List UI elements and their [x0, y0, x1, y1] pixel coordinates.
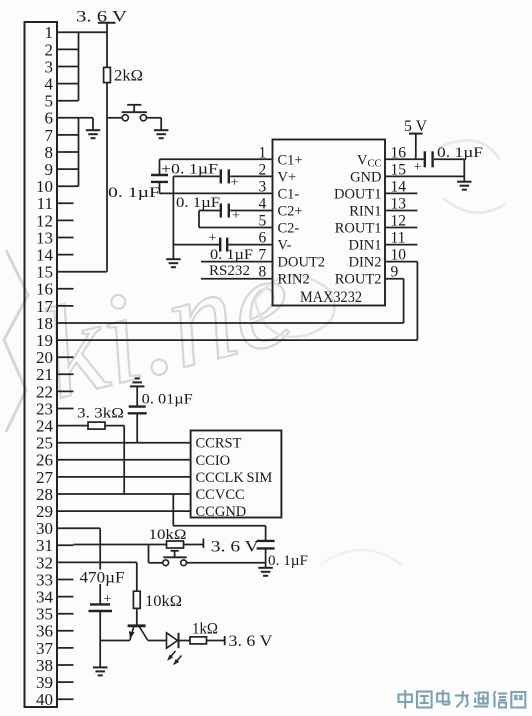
label 470µF — [79, 570, 125, 585]
wire U1 pin16 Vcc — [385, 158, 424, 160]
wire U1 pin15 GND — [385, 175, 464, 177]
label +0.1µF (C1) — [161, 161, 218, 177]
power terminal 3.6V (pin 31) — [202, 539, 204, 549]
resistor 3.3kΩ — [74, 422, 125, 429]
svg-text:0. 1µF: 0. 1µF — [210, 247, 253, 263]
wire U1 pin5 C2- — [199, 227, 273, 229]
label + (470µF polarity) — [104, 592, 112, 607]
ground at U1 pin15 — [457, 176, 472, 189]
wire bus pins 6-10 — [74, 118, 94, 186]
IC U2 SIM card interface — [191, 431, 282, 518]
power terminal 3.6V (top) — [98, 23, 116, 33]
pushbutton S1 (start) — [107, 105, 147, 121]
label 0.01µF — [142, 391, 193, 407]
LED arrows — [167, 651, 181, 665]
U1 pin numbers right 16-9 — [391, 144, 407, 280]
svg-text:DIN2: DIN2 — [348, 255, 381, 271]
capacitor 0.01µF (CCRST) — [128, 407, 147, 443]
svg-text:0. 1µF: 0. 1µF — [437, 145, 483, 161]
svg-text:V+: V+ — [278, 169, 297, 185]
ground at 470µF — [93, 667, 108, 675]
svg-text:DIN1: DIN1 — [348, 238, 381, 254]
svg-text:GND: GND — [350, 169, 381, 185]
capacitor 0.1µF C2 (C2+ to C2-) — [199, 204, 229, 228]
svg-text:MAX3232: MAX3232 — [300, 289, 362, 306]
label 10kΩ (pull-up) — [149, 527, 187, 543]
power terminal 3.6V (LED) — [224, 636, 226, 645]
capacitor 0.1µF C3 (V+ to GND) — [173, 169, 228, 183]
U1 pin numbers left 1-8 — [258, 144, 266, 280]
label 10kΩ (base) — [145, 593, 182, 610]
wire bus pins 1-5 — [74, 32, 108, 100]
svg-text:C1-: C1- — [278, 186, 300, 202]
wire U1 pin3 C1- — [160, 192, 273, 194]
label + (C2 polarity) — [232, 209, 240, 224]
wire emitter to ground node — [100, 640, 130, 642]
wire S2 to ground node — [187, 562, 266, 564]
wire U1 pin13 RIN1 stub — [385, 210, 417, 212]
wire U1 pin6 V- — [228, 244, 272, 246]
wire U1 pin14 DOUT1 stub — [385, 192, 417, 194]
svg-text:3. 6 V: 3. 6 V — [76, 8, 128, 25]
svg-text:40: 40 — [36, 690, 53, 709]
svg-text:RIN2: RIN2 — [278, 272, 310, 288]
site footer text — [399, 690, 526, 709]
svg-text:C2-: C2- — [278, 221, 300, 237]
label 3.3kΩ — [77, 405, 124, 421]
svg-text:C2+: C2+ — [278, 204, 303, 220]
wire connector pin 28 to SIM — [74, 493, 191, 495]
label 0.1µF (C5) — [437, 145, 483, 161]
label 2kΩ — [114, 67, 143, 84]
label RS232 — [209, 263, 250, 279]
label 3.6 V (LED) — [229, 633, 273, 650]
capacitor 0.1µF C1 (C1+ to C1-) — [151, 159, 168, 193]
label 5 V — [404, 118, 428, 135]
label 3.6 V (pin 31) — [211, 538, 260, 555]
svg-text:CCIO: CCIO — [196, 453, 231, 469]
svg-text:3. 3kΩ: 3. 3kΩ — [77, 405, 124, 421]
wire CCVCC branch down — [173, 494, 265, 541]
label 0.1µF (SIM cap) — [268, 553, 308, 569]
svg-text:+: + — [231, 176, 239, 191]
svg-text:RS232: RS232 — [209, 263, 250, 279]
svg-text:+: + — [414, 160, 422, 175]
svg-text:0. 1µF: 0. 1µF — [176, 195, 220, 211]
svg-text:ROUT1: ROUT1 — [335, 221, 382, 237]
wire U1 pin11 DIN1 stub — [385, 244, 417, 246]
label 3.6 V (top) — [76, 8, 128, 25]
svg-text:470µF: 470µF — [80, 570, 125, 587]
wire pin30 down — [74, 528, 101, 604]
transistor Q1 — [128, 626, 148, 641]
svg-text:DOUT1: DOUT1 — [334, 186, 382, 202]
wire pin32 to base resistor — [74, 562, 137, 591]
pushbutton S2 — [149, 545, 187, 566]
wire connector pin 27 to SIM — [74, 476, 191, 478]
svg-text:0. 01µF: 0. 01µF — [142, 391, 193, 407]
connector J1 40-pin header — [25, 22, 74, 707]
ground at V+ cap — [166, 259, 181, 267]
svg-text:5 V: 5 V — [404, 118, 428, 135]
svg-text:+: + — [209, 231, 217, 246]
ground at SIM cap — [258, 568, 273, 576]
capacitor 0.1µF (SIM supply) — [257, 541, 275, 568]
resistor 10kΩ (pull-up) — [74, 541, 203, 548]
label + (C5 polarity) — [414, 160, 422, 175]
capacitor 470µF — [89, 604, 113, 667]
wire S1 to ground — [147, 118, 162, 130]
svg-text:+: + — [232, 209, 240, 224]
ground at S1 — [154, 130, 169, 138]
wire U1 pin1 C1+ — [160, 158, 273, 160]
label 0.1µF (left) — [108, 185, 160, 201]
svg-text:0. 1µF: 0. 1µF — [108, 185, 160, 201]
svg-text:1kΩ: 1kΩ — [192, 620, 218, 637]
wire 3.6V rail to pin 15 — [74, 118, 108, 272]
label + (C4 polarity) — [209, 231, 217, 246]
svg-text:3. 6 V: 3. 6 V — [229, 633, 273, 650]
ground at pin 6 — [86, 118, 101, 138]
label 1kΩ — [192, 620, 218, 637]
label 0.1µF (C4) — [210, 247, 253, 263]
wire U1 pin12 ROUT1 stub — [385, 227, 417, 229]
svg-text:ROUT2: ROUT2 — [335, 272, 382, 288]
svg-text:10kΩ: 10kΩ — [145, 593, 182, 610]
wire U1 pin7 DOUT2 (RS232) — [201, 261, 273, 263]
svg-text:CCCLK: CCCLK — [196, 470, 245, 486]
resistor 1kΩ — [190, 637, 224, 644]
svg-text:CCRST: CCRST — [196, 436, 242, 452]
wire connector pin 25 to SIM — [74, 442, 191, 444]
resistor 2kΩ — [104, 32, 111, 118]
wire U1 pin10 DIN2 to connector pin 19 — [74, 262, 418, 341]
wire connector pin 29 to SIM — [74, 510, 191, 512]
svg-text:C1+: C1+ — [278, 152, 303, 168]
svg-text:SIM: SIM — [247, 470, 273, 486]
svg-text:CCGND: CCGND — [196, 504, 247, 520]
resistor 10kΩ (base) — [133, 591, 140, 624]
svg-text:0. 1µF: 0. 1µF — [268, 553, 308, 569]
wire 3.3kΩ to CCVCC — [123, 426, 125, 494]
wire U1 pin4 C2+ — [230, 210, 272, 212]
svg-text:+0. 1µF: +0. 1µF — [161, 161, 218, 177]
wire V+ down to ground — [172, 176, 174, 259]
svg-text:DOUT2: DOUT2 — [278, 255, 326, 271]
capacitor 0.1µF C5 (Vcc bypass) — [425, 151, 465, 176]
power terminal 5V — [409, 134, 423, 160]
svg-text:CCVCC: CCVCC — [196, 487, 245, 503]
watermark (decorative, part of scan) — [4, 140, 505, 565]
wire connector pin 26 to SIM — [74, 459, 191, 461]
svg-text:V-: V- — [278, 238, 292, 254]
label 0.1µF (C2) — [176, 195, 220, 211]
wire U1 pin8 RIN2 (RS232) — [201, 278, 273, 280]
LED D1 — [148, 633, 190, 648]
label + (C3 polarity) — [231, 176, 239, 191]
op-amp / IC U1 MAX3232 — [273, 140, 386, 306]
svg-text:RIN1: RIN1 — [349, 204, 381, 220]
wire U1 pin9 ROUT2 to connector pin 18 — [74, 279, 404, 323]
inverted ground (0.01µF cap) — [130, 378, 145, 406]
svg-text:3. 6 V: 3. 6 V — [211, 538, 260, 555]
capacitor 0.1µF C4 (V- to GND) — [173, 238, 227, 252]
svg-text:2kΩ: 2kΩ — [114, 67, 143, 84]
wire U1 pin2 V+ — [230, 175, 272, 177]
